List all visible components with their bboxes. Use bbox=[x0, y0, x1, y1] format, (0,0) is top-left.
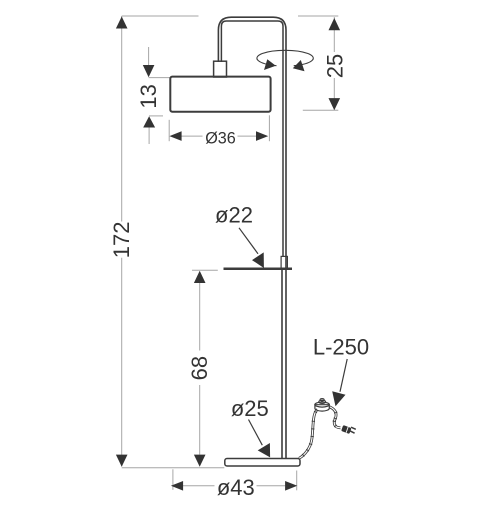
rotation arrow right bbox=[293, 60, 305, 71]
leader L-250 arrow bbox=[332, 391, 345, 406]
svg-text:68: 68 bbox=[187, 356, 212, 380]
extension line bottom of 25 bbox=[303, 109, 339, 111]
extension line 13 lower bbox=[149, 115, 163, 117]
dimension o43 line bbox=[183, 485, 285, 487]
svg-text:ø43: ø43 bbox=[217, 475, 255, 500]
extension line 13 upper bbox=[149, 77, 171, 79]
leader o25 arrow bbox=[258, 443, 270, 457]
dimension 13 arrow down bbox=[143, 65, 155, 77]
rotation arrow left bbox=[264, 59, 276, 70]
extension line top (shared 172/25) bbox=[122, 15, 339, 17]
dimension 172 arrow top bbox=[116, 17, 128, 29]
extension line bottom (shared 172/68) bbox=[122, 467, 225, 469]
dimension 172 line bbox=[121, 16, 123, 467]
dimension 68 arrow bottom bbox=[194, 455, 206, 467]
switch knob bbox=[320, 399, 324, 402]
dimension 25 arrow bottom bbox=[329, 98, 341, 110]
svg-text:ø22: ø22 bbox=[215, 203, 253, 228]
arm and pole outer line bbox=[218, 17, 286, 458]
dimension 25 line bbox=[333, 17, 335, 110]
dimension 13 line lower bbox=[148, 128, 150, 145]
plug prong 2 bbox=[350, 431, 355, 433]
pole joint collar bbox=[281, 256, 287, 268]
dimension O36 arrow left bbox=[169, 131, 181, 141]
cable switch to plug bbox=[330, 407, 341, 428]
plug prong 1 bbox=[351, 427, 356, 429]
dimension O36 extension left bbox=[168, 120, 170, 141]
dimension 25 arrow top bbox=[329, 18, 341, 30]
base plate bbox=[225, 459, 300, 467]
switch ring bbox=[319, 400, 326, 403]
dimension o43 extension left bbox=[172, 469, 174, 490]
dimension 13 line upper bbox=[148, 47, 150, 66]
dimension 68 line bbox=[199, 283, 201, 455]
svg-text:ø25: ø25 bbox=[231, 396, 269, 421]
dimension O36 extension right bbox=[268, 115, 270, 141]
shelf bbox=[224, 268, 293, 271]
lower pole left line bbox=[281, 269, 283, 459]
dimension 68 arrow top bbox=[194, 271, 206, 283]
rotation ellipse bbox=[257, 50, 313, 65]
dimension 13 arrow up bbox=[143, 116, 155, 127]
leader o25 bbox=[249, 420, 263, 446]
leader L-250 bbox=[340, 359, 347, 392]
plug body bbox=[341, 425, 351, 434]
cable base to switch bbox=[299, 410, 318, 459]
svg-text:Ø36: Ø36 bbox=[205, 129, 236, 147]
dimension o43 extension right bbox=[296, 471, 298, 491]
leader o22 arrow bbox=[252, 252, 264, 268]
arm and pole inner line bbox=[221, 21, 283, 256]
svg-text:13: 13 bbox=[136, 84, 161, 108]
leader o22 bbox=[239, 228, 258, 254]
dimension o43 arrow left bbox=[171, 481, 183, 491]
dimension O36 arrow right bbox=[256, 131, 268, 141]
switch body bottom bbox=[315, 405, 329, 411]
svg-text:L-250: L-250 bbox=[313, 335, 369, 360]
dimension 68 extension top bbox=[192, 269, 218, 271]
lamp shade bbox=[170, 77, 270, 112]
cable hatch ticks bbox=[302, 411, 337, 456]
dimension 172 arrow bottom bbox=[116, 455, 128, 467]
dimension o43 arrow right bbox=[285, 481, 297, 491]
svg-text:172: 172 bbox=[109, 222, 134, 259]
switch body top rim bbox=[315, 402, 329, 407]
dimension O36 line bbox=[181, 135, 257, 137]
lamp holder bbox=[214, 61, 227, 77]
svg-text:25: 25 bbox=[322, 54, 347, 78]
